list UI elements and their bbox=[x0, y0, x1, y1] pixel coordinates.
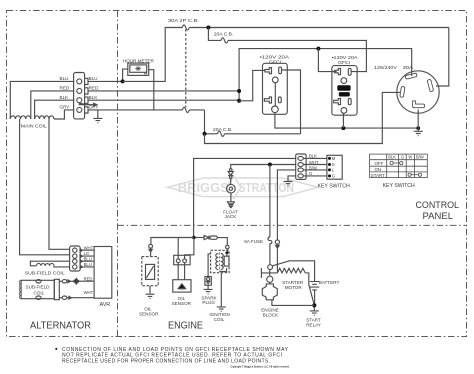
oil sensor 1 box bbox=[142, 257, 158, 286]
GFCI1 top-right slot bbox=[279, 67, 282, 74]
GFCI receptacle 2 body bbox=[332, 66, 357, 116]
receptacle slots bbox=[400, 73, 434, 108]
svg-text:125/240V: 125/240V bbox=[374, 65, 398, 70]
svg-text:RED: RED bbox=[60, 86, 70, 91]
GFCI2 bottom-right slot bbox=[348, 98, 351, 104]
svg-text:B/W: B/W bbox=[416, 154, 424, 159]
GFCI1 bottom-right slot bbox=[278, 97, 281, 103]
svg-text:30A 2P C.B.: 30A 2P C.B. bbox=[168, 18, 199, 23]
starter switch contact + blade bbox=[268, 265, 273, 270]
watermark briggs-stratton logo bbox=[168, 176, 319, 198]
GFCI1 upper circle bbox=[272, 77, 278, 83]
svg-text:WHT: WHT bbox=[84, 245, 94, 250]
svg-text:8A FUSE: 8A FUSE bbox=[244, 239, 263, 244]
engine junction node bbox=[192, 236, 196, 240]
svg-text:PANEL: PANEL bbox=[423, 211, 454, 221]
svg-text:M: M bbox=[332, 156, 336, 161]
GFCI receptacle 1 body bbox=[263, 63, 288, 114]
svg-text:SUB-FIELD COIL: SUB-FIELD COIL bbox=[25, 270, 65, 275]
svg-text:BLU: BLU bbox=[84, 262, 92, 267]
svg-text:ON: ON bbox=[375, 167, 382, 172]
svg-text:BRIGGS: BRIGGS bbox=[178, 181, 229, 195]
8A fuse bbox=[268, 237, 272, 265]
svg-text:BLU: BLU bbox=[84, 256, 92, 261]
WHT wire with junction to float jack diode and 8A fuse bbox=[231, 165, 296, 169]
svg-text:ENGINE: ENGINE bbox=[168, 321, 203, 332]
key switch connector bbox=[296, 154, 306, 179]
solenoid plunger bar bbox=[260, 268, 262, 278]
svg-text:STRATTON: STRATTON bbox=[239, 181, 295, 195]
svg-text:W: W bbox=[408, 154, 412, 159]
float jack diode bbox=[229, 169, 232, 172]
20A C.B. no.2 bbox=[218, 131, 225, 136]
svg-text:CONTROL: CONTROL bbox=[416, 200, 460, 210]
wire to 30A receptacle right contact bbox=[436, 28, 449, 87]
GFCI2 RESET button (black) bbox=[339, 92, 350, 96]
2-pin connector to oil sensor diode bbox=[174, 255, 190, 264]
GRY neutral: hour meter leg T, 30A lower pole, down to 20A no.2 bbox=[205, 110, 218, 134]
hour meter bbox=[128, 63, 149, 75]
GFCI2 bottom circle bbox=[341, 108, 347, 114]
svg-text:SENSOR: SENSOR bbox=[139, 312, 159, 317]
float jack bbox=[227, 184, 236, 193]
svg-text:OFF: OFF bbox=[375, 161, 384, 166]
svg-text:RED: RED bbox=[84, 276, 93, 281]
svg-text:BLK: BLK bbox=[60, 95, 70, 100]
30A 2P circuit breaker top pole bbox=[182, 25, 189, 30]
BLK wire to engine bbox=[194, 158, 296, 237]
svg-text:G: G bbox=[401, 154, 404, 159]
30A 2P breaker lower pole on GRY line bbox=[182, 107, 189, 112]
spark plug bbox=[205, 277, 211, 286]
oil sensor diode box bbox=[173, 280, 191, 292]
flyback diode (black) bbox=[74, 279, 80, 284]
GFCI1 bottom-left T slot bbox=[264, 97, 271, 103]
svg-text:HOUR METER: HOUR METER bbox=[123, 58, 155, 63]
BLK harness arrow bbox=[79, 103, 97, 106]
svg-text:RECEPTACLE USED FOR PROPER CON: RECEPTACLE USED FOR PROPER CONNECTION OF… bbox=[62, 358, 270, 364]
svg-text:PLUG: PLUG bbox=[202, 300, 215, 305]
resistor-diode branch to ignition coil bbox=[196, 237, 204, 239]
svg-text:BLK: BLK bbox=[89, 95, 99, 100]
svg-text:MOTOR: MOTOR bbox=[285, 285, 303, 290]
junction BLU/hour-meter bbox=[121, 79, 125, 83]
svg-text:RELAY: RELAY bbox=[306, 322, 321, 327]
svg-text:AVR: AVR bbox=[100, 302, 111, 308]
GFCI2 bottom-left T slot bbox=[334, 98, 341, 104]
AVR connector 4-pin bbox=[70, 246, 81, 271]
svg-text:JACK: JACK bbox=[225, 214, 238, 219]
branch to GFCI2 top-left slot bbox=[318, 49, 336, 72]
hour meter legs bbox=[123, 69, 128, 81]
OFF row contact BLK-G bbox=[390, 161, 393, 164]
20A C.B. no.1 bbox=[221, 38, 228, 43]
svg-text:ALTERNATOR: ALTERNATOR bbox=[30, 320, 91, 331]
ignition coil windings bbox=[216, 254, 223, 270]
svg-text:BLK: BLK bbox=[388, 154, 396, 159]
125/240V 30A twist-lock receptacle bbox=[397, 71, 439, 113]
junction to 20A breaker 1 bbox=[206, 26, 210, 30]
svg-text:WHT: WHT bbox=[84, 290, 94, 295]
B/W wire down to starter solenoid bbox=[277, 170, 295, 240]
GFCI1 top-right slot to 20A no.2 line bbox=[282, 70, 301, 134]
svg-text:BATTERY: BATTERY bbox=[319, 280, 340, 285]
wire RED from main coil to connector pin 2 bbox=[31, 91, 74, 119]
lower hot run to 30A receptacle left contact bbox=[205, 92, 401, 143]
solenoid coil zigzag bbox=[261, 272, 277, 274]
battery bbox=[310, 282, 320, 290]
svg-text:START: START bbox=[371, 173, 385, 178]
svg-text:COIL: COIL bbox=[214, 317, 225, 322]
svg-text:COIL: COIL bbox=[34, 290, 45, 295]
GRY wires right: to ground and neutral line bbox=[88, 80, 123, 82]
svg-text:G: G bbox=[332, 174, 335, 179]
svg-text:KEY SWITCH: KEY SWITCH bbox=[318, 183, 350, 189]
starter motor bbox=[267, 276, 273, 282]
svg-text:B/W: B/W bbox=[309, 165, 317, 170]
pin WHT row to AVR bbox=[62, 296, 67, 299]
svg-text:WHT: WHT bbox=[309, 160, 319, 165]
GFCI2 top-right slot bbox=[348, 68, 351, 75]
wire BLU from main coil to connector pin 1 bbox=[10, 81, 74, 119]
wire GRY from main coil to connector pin 4 bbox=[54, 110, 74, 119]
oil sensor 1 pin bbox=[149, 244, 153, 248]
svg-text:30A: 30A bbox=[403, 65, 415, 70]
ignition coil to spark plug bbox=[208, 254, 211, 277]
GFCI2 top-left T slot bbox=[335, 68, 341, 74]
GFCI2 TEST button (black) bbox=[337, 85, 350, 90]
GFCI1 top-left T slot bbox=[265, 68, 272, 74]
main coil windings bbox=[10, 116, 31, 119]
GFCI2 upper circle bbox=[341, 78, 347, 84]
30A 2P breaker mechanical link (dashed) bbox=[185, 29, 187, 108]
start relay junction bbox=[312, 303, 316, 307]
connector J1 4-pin bbox=[74, 73, 85, 119]
svg-text:KEY SWITCH: KEY SWITCH bbox=[383, 183, 415, 189]
svg-text:20A C.B.: 20A C.B. bbox=[213, 127, 233, 132]
GFCI1 bottom circle bbox=[272, 106, 279, 113]
BLK feed to GFCI1 top-left slot bbox=[239, 70, 265, 100]
key switch box bbox=[327, 155, 342, 179]
neutral bus: GFCI bottoms to receptacle bottom + ground bbox=[275, 113, 418, 129]
svg-text:GFCI: GFCI bbox=[269, 59, 281, 64]
svg-text:Copyright © Briggs & Stratton,: Copyright © Briggs & Stratton, LLC. All … bbox=[231, 365, 290, 369]
svg-text:SUB-FIELD: SUB-FIELD bbox=[26, 285, 51, 290]
ground at GRY neutral bond bbox=[97, 110, 99, 119]
svg-text:BLU: BLU bbox=[89, 76, 98, 81]
sub-field coil 2 connector strip bbox=[54, 279, 59, 299]
ignition coil box bbox=[211, 250, 230, 272]
sub-field coil 1 bbox=[30, 261, 69, 266]
key switch contact table bbox=[370, 154, 428, 178]
wire BLK from main coil to connector pin 3 bbox=[35, 100, 75, 119]
svg-text:RED: RED bbox=[89, 86, 99, 91]
svg-text:GFCI: GFCI bbox=[338, 60, 350, 65]
START row contact W-B/W bbox=[408, 173, 411, 176]
vertical feed RED/BLK to GFCI bus bbox=[239, 49, 412, 101]
pin to diode, RED row bbox=[62, 280, 67, 283]
svg-text:SENSOR: SENSOR bbox=[172, 301, 192, 306]
engine block shape bbox=[262, 284, 277, 300]
G wire to ground bbox=[288, 176, 296, 182]
AVR box bbox=[94, 247, 112, 299]
ignition coil ground bbox=[220, 273, 222, 307]
svg-text:G: G bbox=[309, 171, 312, 176]
svg-text:MAIN COIL: MAIN COIL bbox=[21, 124, 47, 129]
svg-text:S: S bbox=[332, 162, 335, 167]
svg-text:GRY: GRY bbox=[60, 105, 70, 110]
svg-text:20A C.B.: 20A C.B. bbox=[214, 31, 234, 36]
svg-text:BLOCK: BLOCK bbox=[263, 313, 280, 318]
svg-text:BLK: BLK bbox=[309, 154, 317, 159]
sub-field coil 2 box bbox=[21, 280, 54, 298]
BLU wire up to 30A breaker line bbox=[123, 28, 183, 82]
B/W connector pin bbox=[275, 240, 279, 244]
svg-text:BLU: BLU bbox=[60, 76, 69, 81]
main coil center taps down to AVR connector bbox=[20, 119, 70, 255]
